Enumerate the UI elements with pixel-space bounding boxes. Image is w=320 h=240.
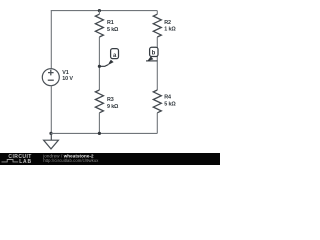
wire R4 bottom lead	[156, 113, 158, 134]
svg-text:R3: R3	[107, 97, 114, 103]
svg-text:b: b	[152, 50, 156, 56]
resistor R4	[153, 90, 161, 113]
junction dot top middle	[98, 9, 101, 12]
svg-text:R1: R1	[107, 20, 114, 26]
junction dot bottom-left	[49, 132, 52, 135]
svg-text:5 kΩ: 5 kΩ	[164, 101, 176, 107]
resistor R1	[95, 14, 103, 37]
wire R2 top lead	[156, 11, 158, 15]
svg-text:R2: R2	[164, 20, 171, 26]
voltage source V1	[42, 69, 59, 86]
junction dot node a	[98, 65, 101, 68]
node b	[146, 47, 158, 61]
resistor R3	[95, 90, 103, 113]
ground	[44, 133, 59, 149]
wire R3 bottom lead	[98, 113, 100, 134]
svg-text:9 kΩ: 9 kΩ	[107, 104, 119, 110]
svg-text:5 kΩ: 5 kΩ	[107, 27, 119, 33]
wire left vertical upper	[50, 11, 52, 69]
wire bottom horizontal	[51, 132, 158, 134]
resistor R2	[153, 14, 161, 37]
wire middle vertical	[98, 37, 100, 90]
wire top horizontal	[51, 10, 158, 12]
wire left vertical lower	[50, 86, 52, 134]
watermark bar	[0, 153, 220, 165]
svg-text:1 kΩ: 1 kΩ	[164, 27, 176, 33]
wire R1 top lead	[98, 11, 100, 15]
junction dot bottom middle	[98, 132, 101, 135]
svg-text:LAB: LAB	[19, 159, 32, 165]
svg-text:R4: R4	[164, 95, 171, 101]
node a	[99, 49, 118, 67]
svg-text:http://circuitlab.com/c/9wkux: http://circuitlab.com/c/9wkux	[43, 158, 99, 163]
wire right vertical middle	[156, 37, 158, 90]
svg-text:10 V: 10 V	[62, 76, 73, 82]
